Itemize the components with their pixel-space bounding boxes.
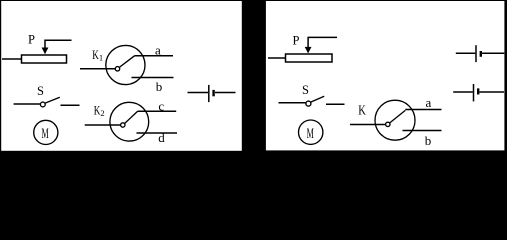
- relay contact K2: [94, 102, 149, 141]
- relay contact K1: [92, 45, 145, 84]
- wire c (upper contact of K2): [138, 98, 177, 113]
- wire a (upper contact of K1): [135, 42, 174, 57]
- svg-text:b: b: [425, 133, 432, 148]
- potentiometer P (right panel): [286, 34, 333, 63]
- svg-text:M: M: [307, 126, 314, 142]
- wire (left lead of right P): [268, 57, 286, 59]
- wire (B2 left lead): [453, 91, 473, 93]
- motor M (right panel): [299, 120, 323, 144]
- switch S: [37, 84, 60, 107]
- svg-text:a: a: [155, 42, 161, 57]
- wire (B1 right lead): [482, 52, 504, 54]
- battery cell (left panel): [209, 85, 214, 102]
- battery cell B1 (right panel top): [476, 45, 481, 62]
- motor M: [34, 120, 58, 144]
- wire (right lead of right S): [326, 103, 345, 105]
- svg-text:c: c: [158, 98, 164, 113]
- wire (wiper lead of P): [45, 39, 72, 41]
- svg-text:b: b: [156, 79, 163, 94]
- wire (left lead of right S): [279, 102, 306, 104]
- svg-text:P: P: [293, 34, 300, 48]
- switch S (right panel): [302, 83, 324, 106]
- svg-text:a: a: [426, 95, 432, 110]
- wire (wiper lead of right P): [308, 36, 337, 38]
- relay contact K (right panel): [358, 100, 415, 140]
- potentiometer P: [22, 33, 67, 63]
- wire (left lead of S): [14, 103, 41, 105]
- wire a (upper contact of K): [405, 95, 441, 110]
- svg-text:M: M: [42, 126, 49, 142]
- wire (battery right lead): [215, 92, 236, 94]
- svg-text:P: P: [28, 33, 35, 47]
- wire (battery left lead): [188, 92, 209, 94]
- svg-text:d: d: [158, 130, 165, 145]
- wire (B2 right lead): [480, 91, 505, 93]
- svg-text:S: S: [37, 84, 44, 98]
- wire (common lead of K2): [85, 124, 121, 126]
- svg-text:S: S: [302, 83, 309, 97]
- battery cell B2 (right panel bottom): [474, 84, 479, 101]
- wire b (lower contact of K1): [132, 78, 174, 95]
- wire d (lower contact of K2): [137, 130, 178, 145]
- wire (B1 left lead): [456, 52, 476, 54]
- wire (right lead of S): [61, 104, 80, 106]
- wire (left lead of P): [2, 58, 22, 60]
- wire (common lead of K): [350, 124, 386, 126]
- wire (common lead of K1): [80, 68, 115, 70]
- wire b (lower contact of K): [403, 131, 442, 149]
- svg-text:K: K: [358, 103, 366, 118]
